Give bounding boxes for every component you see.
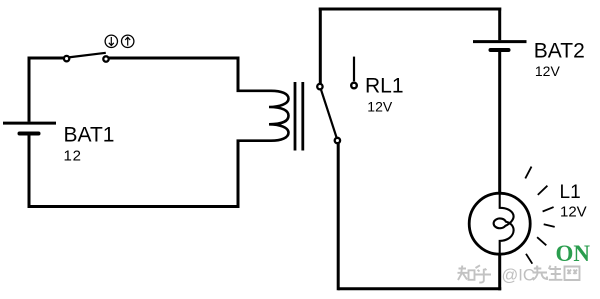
svg-text:BAT2: BAT2: [534, 40, 585, 63]
switch S1 right contact: [103, 56, 108, 61]
wire right vertical upper of left loop: [237, 57, 240, 93]
wire bottom of left loop: [28, 205, 240, 208]
watermark 知乎 @IC先生网: [458, 265, 580, 284]
svg-text:L1: L1: [560, 182, 581, 203]
wire top-left loop left segment: [28, 57, 65, 60]
lamp ray 5: [537, 237, 546, 245]
relay contact RL1 top terminal: [317, 84, 322, 89]
relay RL1 pin lead: [353, 57, 355, 82]
lamp ray 2: [538, 186, 548, 195]
label L1: [560, 182, 581, 203]
svg-text:12: 12: [64, 147, 82, 164]
value 12V (RL1): [367, 99, 393, 115]
svg-text:12V: 12V: [535, 63, 561, 79]
relay core line 2: [301, 82, 304, 151]
wire top of right loop: [319, 8, 501, 11]
relay RL1 pin terminal: [351, 83, 357, 89]
wire BAT2 to lamp: [498, 51, 501, 194]
label RL1: [365, 74, 404, 97]
relay core line 1: [294, 82, 297, 151]
lamp vertical below bulb: [498, 254, 501, 290]
key indicator up-arrow circle: [122, 35, 134, 47]
relay RL1 coil: [237, 91, 289, 141]
label BAT2: [534, 40, 585, 63]
wire right vertical lower of left loop: [237, 140, 240, 209]
svg-text:12V: 12V: [367, 99, 393, 115]
battery BAT2 short plate: [491, 48, 509, 52]
battery BAT2 long plate: [473, 40, 527, 43]
switch S1 left contact: [64, 56, 69, 61]
svg-text:12V: 12V: [560, 204, 587, 221]
relay contact RL1 bottom terminal: [335, 138, 340, 143]
wire left vertical upper (to BAT1): [28, 57, 31, 122]
wire right vertical top (to BAT2): [498, 8, 501, 41]
lamp ray 3: [543, 207, 554, 211]
lamp ray 4: [544, 224, 555, 227]
label BAT1: [64, 124, 115, 147]
value 12V (BAT2): [535, 63, 561, 79]
battery BAT1 long plate: [3, 122, 56, 125]
svg-text:BAT1: BAT1: [64, 124, 115, 147]
wire left vertical lower (BAT1 to bottom): [28, 135, 31, 209]
battery BAT1 short plate: [20, 132, 39, 136]
svg-text:@IC: @IC: [502, 267, 535, 285]
wire contact top vertical: [319, 8, 322, 84]
lamp L1 filament: [494, 193, 514, 256]
wire top-left loop right segment: [109, 57, 240, 60]
svg-text:ON: ON: [556, 241, 591, 266]
value 12V (L1): [560, 204, 587, 221]
value 12: [64, 147, 82, 164]
key indicator down-arrow circle: [105, 35, 117, 47]
svg-text:RL1: RL1: [365, 74, 404, 97]
lamp L1 bulb circle: [469, 193, 530, 254]
state label ON: [556, 241, 591, 266]
lamp ray 6: [526, 254, 532, 264]
relay contact RL1 blade: [321, 90, 337, 138]
lamp ray 1: [525, 167, 531, 179]
wire bottom of right loop: [338, 287, 501, 290]
switch S1 blade: [69, 53, 106, 58]
wire contact bottom vertical: [337, 143, 340, 290]
